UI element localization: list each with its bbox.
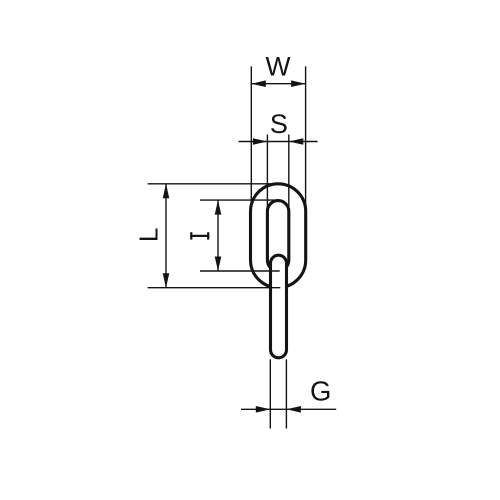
arrowhead I bottom xyxy=(215,257,222,272)
chain link 1 outer outline (front view) xyxy=(251,184,306,288)
svg-text:G: G xyxy=(310,375,331,406)
arrowhead L top xyxy=(163,184,170,199)
arrowhead S left xyxy=(253,138,268,145)
svg-text:S: S xyxy=(270,109,288,139)
arrowhead W right xyxy=(291,80,306,87)
dimension line L xyxy=(165,184,167,288)
dimension line W xyxy=(251,83,305,85)
arrowhead S right xyxy=(289,138,304,145)
extension line G left xyxy=(269,359,271,428)
arrowhead L bottom xyxy=(163,273,170,288)
svg-text:W: W xyxy=(265,52,290,82)
extension line S right xyxy=(288,135,290,212)
extension line S left xyxy=(266,135,268,212)
extension line G right xyxy=(285,359,287,428)
label I (serif capital drawn as strokes) xyxy=(190,232,209,239)
arrowhead W left xyxy=(251,80,265,87)
chain link 1 inner outline (hole) xyxy=(267,201,288,271)
extension line I top xyxy=(200,199,280,201)
dimension line G xyxy=(241,408,336,410)
arrowhead G left xyxy=(256,406,270,413)
chain link 2 (end view capsule) xyxy=(271,255,287,358)
extension line L bottom xyxy=(148,287,281,289)
svg-text:L: L xyxy=(133,228,163,242)
arrowhead I top xyxy=(215,200,222,215)
extension line W right xyxy=(305,66,307,211)
extension line W left xyxy=(250,66,252,211)
arrowhead G right xyxy=(286,406,301,413)
extension line I bottom xyxy=(200,270,280,272)
dimension line I xyxy=(217,200,219,271)
extension line L top xyxy=(148,183,281,185)
dimension line S xyxy=(239,141,318,143)
